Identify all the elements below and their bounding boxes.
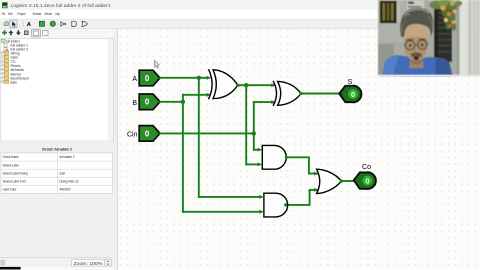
menu bar (2, 12, 60, 16)
svg-text:A: A (132, 76, 137, 83)
node label S (348, 79, 353, 86)
wall (378, 0, 480, 76)
node label A (132, 76, 137, 83)
svg-text:0: 0 (145, 98, 150, 107)
svg-text:#000000: #000000 (60, 188, 71, 192)
and gate U3 input stubs (258, 148, 263, 167)
svg-text:Circuit: full adder 2: Circuit: full adder 2 (42, 146, 73, 151)
svg-text:Cin: Cin (127, 132, 138, 139)
wire AND2 output (286, 190, 318, 205)
svg-text:full adder 2: full adder 2 (60, 155, 75, 159)
or gate U5 output dot (340, 179, 343, 182)
svg-text:Dialog Plain 12: Dialog Plain 12 (60, 180, 79, 184)
wire Cin horizontal (160, 132, 254, 134)
nose (414, 46, 418, 53)
glasses (405, 41, 414, 50)
node junction Cin (252, 131, 256, 135)
node junction XOR1 out (244, 83, 248, 87)
xor gate U1 input stubs (207, 76, 212, 97)
hair (400, 8, 433, 37)
svg-text:0: 0 (366, 177, 370, 186)
svg-text:Zoom: 100%: Zoom: 100% (74, 261, 103, 266)
wire XOR1 output to XOR2 input 1 (238, 84, 272, 86)
and gate U4 input stubs (259, 195, 264, 214)
mouse cursor (154, 60, 159, 68)
input pin A (139, 70, 160, 86)
wire B to XOR1 input 2 (183, 94, 207, 96)
node junction B (181, 100, 185, 104)
xor gate U1 (209, 70, 238, 99)
node label Cin (127, 132, 138, 139)
xor gate U2 output dot (299, 92, 302, 95)
properties panel (0, 141, 114, 258)
toolbar row 1 icons (4, 20, 88, 28)
and gate U3 (262, 145, 286, 169)
wire XOR1 out vertical (245, 85, 247, 164)
or gate U5 (317, 169, 342, 193)
svg-text:Base: Base (11, 81, 18, 85)
wire Cin vertical (253, 102, 255, 150)
dark picture frame (380, 1, 397, 23)
explorer tree panel (1, 38, 113, 141)
wire B to AND2 input 2 (183, 211, 261, 213)
svg-text:Circuit Name: Circuit Name (3, 155, 19, 159)
output pin S (339, 86, 361, 103)
panel divider (114, 29, 118, 270)
neck (410, 56, 424, 68)
wire B vertical (182, 102, 184, 212)
svg-text:Shared Label: Shared Label (3, 163, 19, 167)
wire Cin to AND1 input 1 (254, 149, 258, 151)
wire OR output to Co (341, 180, 354, 182)
output pin Co (354, 172, 376, 189)
xor gate U2 input stubs (271, 83, 276, 104)
zoom status row (0, 258, 117, 270)
poster (406, 0, 425, 16)
curtain (457, 0, 459, 76)
input pin Cin (139, 126, 160, 142)
mustache and mouth (411, 53, 422, 58)
svg-text:0: 0 (145, 129, 150, 138)
and gate U3 output dot (285, 156, 288, 159)
xor gate U2 (273, 81, 301, 105)
svg-text:Label Color: Label Color (3, 188, 18, 192)
or gate U5 input stubs (314, 172, 319, 192)
explorer toolbar row 2 (0, 29, 114, 38)
eyebrows (406, 39, 425, 40)
node label Co (362, 164, 371, 171)
wire A vertical (198, 78, 200, 197)
svg-text:Help: Help (55, 12, 60, 16)
svg-text:Simulate: Simulate (33, 12, 42, 16)
svg-text:Shared Label Facing: Shared Label Facing (3, 171, 28, 175)
person: shirt (382, 55, 453, 76)
svg-text:Shared Label Font: Shared Label Font (3, 180, 26, 184)
face (404, 27, 428, 62)
wire B horizontal (160, 101, 183, 103)
svg-text:Co: Co (362, 164, 371, 171)
node junction A (197, 76, 201, 80)
node label B (132, 100, 137, 107)
wire XOR2 output to S (301, 93, 340, 95)
xor gate U1 output dot (236, 84, 239, 87)
svg-text:East: East (60, 171, 66, 175)
plant (430, 0, 463, 31)
wire B step up (182, 95, 184, 102)
svg-text:Logisim 2.16.1.4ece full adder: Logisim 2.16.1.4ece full adder 2 of full… (11, 3, 111, 8)
wire Cin to XOR2 input 2 (254, 101, 272, 103)
and gate U4 (264, 193, 288, 217)
svg-text:0: 0 (351, 90, 355, 99)
svg-text:Project: Project (17, 12, 26, 16)
wire XOR1 out to AND1 input 2 (246, 163, 258, 165)
input pin B (139, 94, 160, 110)
shelf (434, 7, 452, 62)
svg-text:Window: Window (44, 12, 52, 16)
svg-text:B: B (132, 100, 137, 107)
title bar icon and text (2, 2, 111, 8)
and gate U4 output dot (284, 203, 287, 206)
wire A horizontal (160, 77, 207, 79)
wire AND1 output (286, 157, 317, 173)
WEBCAM overlay (378, 0, 480, 76)
svg-text:File: File (2, 12, 6, 16)
svg-text:0: 0 (145, 74, 150, 83)
svg-text:Edit: Edit (8, 12, 13, 16)
wire A to AND2 input 1 (199, 196, 260, 198)
canvas (118, 29, 480, 270)
